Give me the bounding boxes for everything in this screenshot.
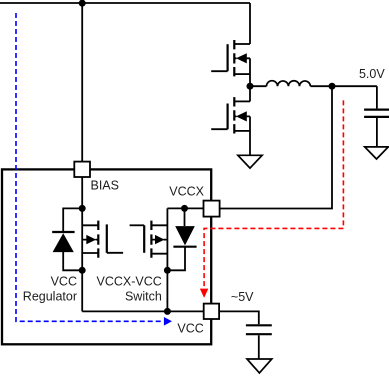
node junction top rail / BIAS feed xyxy=(79,0,86,7)
svg-text:Regulator: Regulator xyxy=(23,290,77,304)
svg-text:~5V: ~5V xyxy=(231,290,254,304)
wire blue dashed BIAS-to-VCC annotation path xyxy=(16,13,172,326)
terminal VCC xyxy=(204,304,219,319)
wire BIAS internal vertical xyxy=(81,177,83,311)
wire BIAS feed vertical xyxy=(81,3,83,162)
inductor L1 xyxy=(250,81,332,86)
capacitor C1 (5.0V output cap) xyxy=(364,86,389,147)
node switch node SW xyxy=(247,83,254,90)
label BIAS xyxy=(91,178,120,192)
wire VCCX internal (pin to switch conductor) xyxy=(167,208,203,311)
node BIAS branch upper xyxy=(79,205,86,212)
transistor M3 (regulator pass FET) xyxy=(82,221,123,258)
ground GND1 (below Q2) xyxy=(238,155,262,168)
wire VCC rail internal xyxy=(82,310,203,312)
svg-text:Switch: Switch xyxy=(125,290,162,304)
wire VCC pin to capacitor xyxy=(219,311,259,324)
terminal VCCX xyxy=(204,201,220,217)
label 5.0V xyxy=(359,67,385,81)
node VCC rail junction xyxy=(164,308,171,315)
svg-text:VCCX-VCC: VCCX-VCC xyxy=(97,274,162,288)
svg-text:VCC: VCC xyxy=(51,274,77,288)
capacitor C2 (VCC cap) xyxy=(246,325,272,359)
diode D1 (VCC regulator diode) xyxy=(52,208,82,270)
wire 5.0V rail to capacitor xyxy=(332,85,377,87)
wire top rail xyxy=(0,2,250,4)
svg-text:VCCX: VCCX xyxy=(169,184,204,198)
ground GND3 (below C2) xyxy=(247,359,272,373)
svg-text:VCC: VCC xyxy=(177,322,203,336)
node 5.0V rail junction xyxy=(329,83,336,90)
wire red dashed VCCX-to-VCC annotation path xyxy=(200,100,344,298)
transistor M4 (VCCX-VCC switch FET) xyxy=(130,221,168,258)
wire VCCX feed (5.0V rail down to VCCX pin) xyxy=(220,86,332,208)
terminal BIAS xyxy=(74,162,90,177)
label VCCX xyxy=(169,184,204,198)
ground GND2 (below C1) xyxy=(365,147,389,159)
label ~5V xyxy=(231,290,254,304)
wire Q1 drain drop xyxy=(249,3,251,44)
transistor Q1 (high-side NMOS) xyxy=(211,40,250,86)
transistor Q2 (low-side NMOS) xyxy=(211,86,250,155)
node regulator output lower xyxy=(79,267,86,274)
svg-text:5.0V: 5.0V xyxy=(359,67,385,81)
IC device box xyxy=(2,169,211,344)
svg-text:BIAS: BIAS xyxy=(91,178,120,192)
node switch conductor / diode join xyxy=(164,267,171,274)
label VCC Regulator xyxy=(23,274,77,303)
node diode D2 tap xyxy=(181,205,188,212)
diode D2 (switch body diode) xyxy=(167,208,196,270)
label VCC xyxy=(177,322,203,336)
label VCCX-VCC Switch xyxy=(97,274,162,303)
